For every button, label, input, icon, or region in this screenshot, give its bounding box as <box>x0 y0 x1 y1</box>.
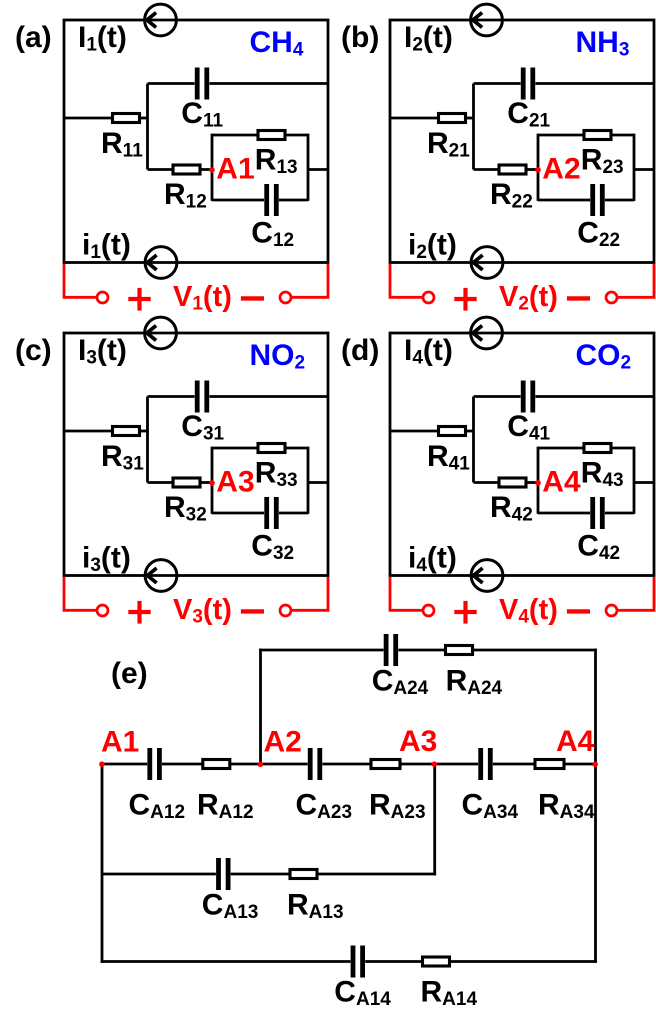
svg-text:V1(t): V1(t) <box>173 281 232 315</box>
resistor RA23 <box>371 760 435 769</box>
plus sign <box>128 601 150 624</box>
resistor RA34 <box>535 760 596 769</box>
resistor R31 <box>64 427 148 436</box>
svg-text:I1(t): I1(t) <box>78 21 127 56</box>
node A1 dot <box>209 167 215 173</box>
svg-text:A1: A1 <box>101 726 139 759</box>
svg-text:I3(t): I3(t) <box>78 334 127 369</box>
current source I2(t) <box>471 4 503 36</box>
svg-text:A2: A2 <box>264 726 302 759</box>
capacitor C11 <box>148 68 329 100</box>
svg-text:V2(t): V2(t) <box>499 281 558 315</box>
plus sign <box>454 601 476 624</box>
node A4 dot <box>592 762 598 768</box>
svg-text:i3(t): i3(t) <box>82 542 131 577</box>
svg-text:V3(t): V3(t) <box>173 594 232 628</box>
resistor R21 <box>390 114 474 123</box>
capacitor CA12 <box>102 748 203 780</box>
minus sign <box>567 609 590 613</box>
wire red measurement loop <box>64 264 97 297</box>
panel (c) outer loop wire <box>64 333 328 576</box>
svg-text:A4: A4 <box>556 725 595 758</box>
current source i3(t) <box>145 560 177 592</box>
wire parallel box left edge <box>211 447 214 514</box>
capacitor CA14 <box>101 946 423 978</box>
resistor R23 <box>538 131 634 140</box>
svg-text:(e): (e) <box>111 657 148 690</box>
svg-text:A4: A4 <box>542 465 581 498</box>
minus sign <box>567 296 590 300</box>
wire red measurement loop <box>390 264 423 297</box>
resistor R12 <box>148 165 213 174</box>
panel (b) outer loop wire <box>390 20 654 263</box>
resistor R33 <box>212 444 308 453</box>
capacitor CA34 <box>435 748 536 780</box>
svg-text:(a): (a) <box>15 21 52 54</box>
capacitor CA23 <box>261 748 373 780</box>
minus sign <box>241 609 264 613</box>
minus sign <box>241 296 264 300</box>
wire parallel box right edge <box>307 447 310 514</box>
current source i1(t) <box>145 247 177 279</box>
svg-text:A1: A1 <box>216 152 254 185</box>
plus sign <box>128 288 150 311</box>
wire output to right edge <box>308 168 328 171</box>
wire parallel box right edge <box>307 134 310 201</box>
capacitor C32 <box>212 497 308 529</box>
resistor RA13 <box>290 870 436 879</box>
capacitor C42 <box>538 497 634 529</box>
wire node A1 left vertical <box>101 764 104 963</box>
terminal + <box>423 605 434 616</box>
wire red measurement loop <box>390 577 423 610</box>
current source I3(t) <box>145 317 177 349</box>
svg-text:A3: A3 <box>399 725 437 758</box>
wire red measurement loop <box>64 577 97 610</box>
node A1 dot <box>99 761 105 767</box>
svg-text:(d): (d) <box>341 334 379 367</box>
terminal + <box>423 292 434 303</box>
wire parallel box right edge <box>633 134 636 201</box>
svg-text:i1(t): i1(t) <box>82 229 131 264</box>
resistor R11 <box>64 114 148 123</box>
resistor R32 <box>148 478 213 487</box>
wire vertical branch <box>146 84 149 170</box>
resistor R13 <box>212 131 308 140</box>
wire parallel box left edge <box>537 134 540 201</box>
svg-text:(b): (b) <box>341 21 379 54</box>
current source i2(t) <box>471 247 503 279</box>
capacitor CA13 <box>102 858 290 890</box>
wire vertical branch <box>472 84 475 170</box>
wire output to right edge <box>634 481 654 484</box>
wire output to right edge <box>634 168 654 171</box>
panel (a) outer loop wire <box>64 20 328 263</box>
terminal - <box>280 605 291 616</box>
capacitor C22 <box>538 184 634 216</box>
terminal - <box>606 292 617 303</box>
wire vertical branch <box>146 397 149 483</box>
panel (d) outer loop wire <box>390 333 654 576</box>
current source I4(t) <box>471 317 503 349</box>
resistor R41 <box>390 427 474 436</box>
wire node A2 riser <box>259 649 262 764</box>
terminal + <box>97 605 108 616</box>
svg-text:i4(t): i4(t) <box>408 542 457 577</box>
terminal - <box>280 292 291 303</box>
plus sign <box>454 288 476 311</box>
capacitor C21 <box>474 68 655 100</box>
wire parallel box right edge <box>633 447 636 514</box>
wire node A3 riser <box>433 764 436 875</box>
resistor RA24 <box>446 646 597 655</box>
node A3 dot <box>432 761 438 767</box>
node A4 dot <box>535 480 541 486</box>
svg-text:(c): (c) <box>15 334 52 367</box>
wire output to right edge <box>308 481 328 484</box>
terminal + <box>97 292 108 303</box>
capacitor C12 <box>212 184 308 216</box>
resistor RA12 <box>203 760 261 769</box>
svg-text:A2: A2 <box>542 152 580 185</box>
svg-text:V4(t): V4(t) <box>499 594 558 628</box>
svg-text:A3: A3 <box>216 465 254 498</box>
terminal - <box>606 605 617 616</box>
wire right vertical through A4 <box>594 649 597 963</box>
node A2 dot <box>258 762 264 768</box>
resistor RA14 <box>423 957 597 966</box>
wire parallel box left edge <box>537 447 540 514</box>
svg-text:I2(t): I2(t) <box>404 21 453 56</box>
capacitor C31 <box>148 381 329 413</box>
capacitor CA24 <box>259 634 445 666</box>
current source i4(t) <box>471 560 503 592</box>
resistor R43 <box>538 444 634 453</box>
svg-text:i2(t): i2(t) <box>408 229 457 264</box>
capacitor C41 <box>474 381 655 413</box>
resistor R42 <box>474 478 539 487</box>
node A3 dot <box>209 480 215 486</box>
wire vertical branch <box>472 397 475 483</box>
wire parallel box left edge <box>211 134 214 201</box>
current source I1(t) <box>145 4 177 36</box>
resistor R22 <box>474 165 539 174</box>
node A2 dot <box>535 167 541 173</box>
svg-text:I4(t): I4(t) <box>404 334 453 369</box>
